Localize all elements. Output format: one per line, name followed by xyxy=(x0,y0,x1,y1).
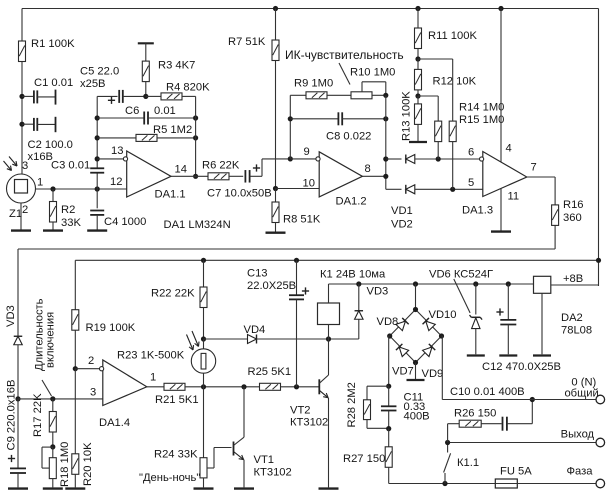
resistor R9 xyxy=(290,94,306,96)
wire DA2 ground xyxy=(541,293,543,354)
node C2 tap xyxy=(19,122,24,127)
svg-text:К1.1: К1.1 xyxy=(457,457,479,469)
svg-text:R4 820K: R4 820K xyxy=(166,82,210,94)
node K1 VT2 collector xyxy=(326,336,331,341)
svg-text:C7 10.0x50В: C7 10.0x50В xyxy=(207,188,272,200)
svg-text:VD2: VD2 xyxy=(391,219,413,231)
node rail VD6 xyxy=(473,281,478,286)
diode VD4 line xyxy=(204,338,248,340)
wire Z1 pin1 to DA1.1 pin12 xyxy=(36,188,127,190)
svg-text:360: 360 xyxy=(563,212,582,224)
node VD3 relay top xyxy=(356,281,361,286)
wire bridge right to neutral xyxy=(441,335,444,337)
svg-text:R19 100K: R19 100K xyxy=(86,322,136,334)
diode VD2 xyxy=(386,188,402,190)
svg-text:КТ3102: КТ3102 xyxy=(254,467,292,479)
wire pin10 input xyxy=(276,188,320,190)
resistor R25 xyxy=(260,383,281,390)
wire right edge +8V feed xyxy=(598,9,600,287)
pointer to R17 xyxy=(42,380,52,396)
svg-text:R8 51K: R8 51K xyxy=(283,214,321,226)
svg-text:DA2: DA2 xyxy=(561,312,583,324)
ground R20 xyxy=(65,487,85,489)
svg-text:C9 220.0x16В: C9 220.0x16В xyxy=(6,380,18,451)
node C3 C4 junction xyxy=(95,186,100,191)
resistor R12 xyxy=(417,59,419,69)
node top rail DA1.3 pin4 xyxy=(498,6,503,11)
node VT1 collector xyxy=(241,384,246,389)
svg-text:2: 2 xyxy=(22,204,28,216)
svg-text:R11 100K: R11 100K xyxy=(428,30,477,42)
node C13 bottom xyxy=(294,384,299,389)
resistor R28 xyxy=(367,385,389,387)
svg-text:R2: R2 xyxy=(61,204,75,216)
ground C9 xyxy=(8,487,28,489)
svg-text:7: 7 xyxy=(531,162,537,174)
svg-text:C13: C13 xyxy=(247,268,268,280)
svg-text:4: 4 xyxy=(506,143,512,155)
wire DA1.2 right rail xyxy=(385,95,387,189)
node snubber bottom xyxy=(445,440,450,445)
wire pin3 line xyxy=(18,398,103,400)
potentiometer R24 xyxy=(203,387,205,458)
resistor R19 xyxy=(72,310,79,331)
node R23 R24 output xyxy=(201,384,206,389)
resistor R4 xyxy=(146,95,161,97)
svg-text:C2 100.0: C2 100.0 xyxy=(28,139,73,151)
wire DA1.1 output xyxy=(171,175,208,177)
capacitor C13 xyxy=(296,260,298,295)
resistor R8 xyxy=(275,189,277,203)
wire left rail from top to Z1 xyxy=(21,9,23,42)
svg-text:R14 1M0: R14 1M0 xyxy=(459,102,504,114)
svg-text:VD9: VD9 xyxy=(422,368,444,380)
svg-text:C8 0.022: C8 0.022 xyxy=(326,131,371,143)
svg-text:VD6 КС524Г: VD6 КС524Г xyxy=(429,269,493,281)
svg-text:R26 150: R26 150 xyxy=(454,408,496,420)
regulator DA2 xyxy=(534,276,551,293)
resistor R27 xyxy=(388,429,390,447)
wire Z1 pin2 to ground xyxy=(20,203,22,230)
node R28 C11 top xyxy=(386,384,391,389)
op-amp DA1.1 xyxy=(127,151,171,197)
node rail C13 xyxy=(294,258,299,263)
ground R24 xyxy=(194,487,214,489)
svg-text:R5 1M2: R5 1M2 xyxy=(153,124,192,136)
bridge diamond xyxy=(390,310,416,337)
node R17 top xyxy=(50,396,55,401)
ground DA1.3 xyxy=(491,230,511,232)
resistor R6 xyxy=(208,173,229,180)
node R15 bottom xyxy=(450,187,455,192)
svg-text:x16B: x16B xyxy=(28,151,54,163)
svg-text:VD7: VD7 xyxy=(392,366,414,378)
svg-text:VD3: VD3 xyxy=(5,305,17,327)
node R11 R12 R15 xyxy=(415,56,420,61)
node rail right xyxy=(596,258,601,263)
svg-text:DA1.3: DA1.3 xyxy=(462,205,493,217)
wire R19 R20 divider rail xyxy=(74,260,76,309)
node left rail C8 xyxy=(288,116,293,121)
capacitor C3 xyxy=(90,167,104,169)
node R22 VD4 xyxy=(201,336,206,341)
svg-text:общий: общий xyxy=(564,387,598,399)
arrows into Z1 xyxy=(4,161,12,171)
capacitor C6 xyxy=(97,117,144,119)
resistor R7 xyxy=(275,9,277,41)
wire output rail y249 xyxy=(18,248,555,250)
svg-text:включения: включения xyxy=(45,312,57,368)
svg-text:R1 100K: R1 100K xyxy=(31,38,75,50)
svg-text:R27 150: R27 150 xyxy=(343,453,385,465)
potentiometer R18 xyxy=(52,447,54,458)
svg-text:R9 1M0: R9 1M0 xyxy=(294,78,333,90)
resistor R22 xyxy=(203,260,205,287)
wire bridge bottom ground xyxy=(415,363,417,380)
terminal phase xyxy=(596,479,605,488)
node R3 C5 R4 xyxy=(143,94,148,99)
diode VD1 xyxy=(386,158,402,160)
svg-text:3: 3 xyxy=(90,387,96,399)
svg-text:C5 22.0: C5 22.0 xyxy=(80,66,119,78)
svg-text:R18 1M0: R18 1M0 xyxy=(59,442,71,487)
node rail VD1 line xyxy=(383,156,388,161)
svg-text:33K: 33K xyxy=(61,217,81,229)
diode VD3 left xyxy=(14,336,23,345)
terminal neutral xyxy=(596,395,605,404)
svg-text:C4 1000: C4 1000 xyxy=(104,216,146,228)
svg-text:R7 51K: R7 51K xyxy=(228,36,266,48)
node R10 right xyxy=(383,93,388,98)
node C6 right xyxy=(193,115,198,120)
ground R2 xyxy=(43,229,63,231)
op-amp DA1.4 xyxy=(103,360,147,406)
svg-text:0.01: 0.01 xyxy=(154,105,176,117)
ground VD6 xyxy=(467,354,485,356)
svg-text:ИК-чувствительность: ИК-чувствительность xyxy=(285,48,404,62)
svg-text:8: 8 xyxy=(365,163,371,175)
node rail C12 xyxy=(506,281,511,286)
svg-text:R10 1M0: R10 1M0 xyxy=(350,67,395,79)
wire DA1.4 output xyxy=(147,386,164,388)
svg-text:5: 5 xyxy=(468,177,474,189)
capacitor C8 xyxy=(290,118,338,120)
node R2 top xyxy=(50,186,55,191)
capacitor C12 xyxy=(507,284,509,320)
node pin9 C7 junction xyxy=(288,156,293,161)
wire left timing chain xyxy=(17,249,19,336)
resistor R21 xyxy=(164,383,185,390)
switch K1.1 xyxy=(444,473,446,484)
svg-text:VD3: VD3 xyxy=(367,286,389,298)
node R5 right xyxy=(193,135,198,140)
resistor R14 xyxy=(418,95,438,97)
svg-text:R13 100K: R13 100K xyxy=(401,91,413,141)
svg-text:VD1: VD1 xyxy=(391,205,413,217)
ground R18 xyxy=(43,487,63,489)
svg-text:11: 11 xyxy=(508,191,520,203)
ground C4 xyxy=(87,229,107,231)
node R12 R13 R14 xyxy=(415,93,420,98)
svg-text:6: 6 xyxy=(468,147,474,159)
node bridge top xyxy=(413,281,418,286)
resistor R3 xyxy=(138,42,154,44)
svg-text:VT2: VT2 xyxy=(290,405,311,417)
svg-text:C10 0.01 400В: C10 0.01 400В xyxy=(450,386,525,398)
wire phase line xyxy=(389,483,496,485)
svg-text:9: 9 xyxy=(304,146,310,158)
node switch bottom xyxy=(442,481,447,486)
wiper R18 xyxy=(42,446,53,448)
svg-text:1: 1 xyxy=(37,177,43,189)
svg-text:VT1: VT1 xyxy=(254,454,275,466)
node C11 R27 xyxy=(386,426,391,431)
svg-text:R17 22K: R17 22K xyxy=(32,393,44,437)
op-amp DA1.3 xyxy=(483,152,527,197)
resistor R5 xyxy=(97,137,136,139)
wiper R24 xyxy=(207,467,214,469)
svg-text:Фаза: Фаза xyxy=(567,466,594,478)
svg-text:R3 4K7: R3 4K7 xyxy=(158,60,195,72)
node pin2 xyxy=(73,366,78,371)
photoresistor R23 xyxy=(203,339,205,349)
node top rail R7 xyxy=(273,6,278,11)
svg-text:C6: C6 xyxy=(125,105,139,117)
svg-text:R24 33K: R24 33K xyxy=(154,449,198,461)
node DA1.1 output feedback xyxy=(193,174,198,179)
svg-text:10: 10 xyxy=(303,178,315,190)
diode VD3 relay xyxy=(358,284,360,311)
diode bridge VD10 xyxy=(423,318,436,331)
op-amp DA1.2 xyxy=(319,152,362,197)
svg-text:FU 5A: FU 5A xyxy=(500,466,532,478)
resistor R11 xyxy=(417,9,419,29)
capacitor C1 xyxy=(22,95,34,97)
resistor R20 xyxy=(74,369,76,454)
svg-text:VD4: VD4 xyxy=(244,324,266,336)
wire pin9 input xyxy=(290,158,316,160)
capacitor C11 xyxy=(388,386,390,406)
capacitor C4 xyxy=(96,189,98,208)
wire output line xyxy=(448,442,596,444)
ground R8 xyxy=(266,231,286,233)
svg-text:C12 470.0X25В: C12 470.0X25В xyxy=(482,361,561,373)
resistor R2 xyxy=(52,189,54,202)
wire DA1.1 feedback left rail xyxy=(96,96,98,168)
svg-text:Z1: Z1 xyxy=(9,208,22,220)
svg-text:Выход: Выход xyxy=(561,429,595,441)
node rail R22 xyxy=(201,258,206,263)
diode bridge VD7 xyxy=(396,344,409,357)
svg-text:R23 1K-500K: R23 1K-500K xyxy=(117,350,185,362)
node R17 R18 xyxy=(50,444,55,449)
wire DA1.2 output xyxy=(362,175,385,177)
snubber R26 C10 xyxy=(447,424,449,443)
svg-text:3: 3 xyxy=(22,160,28,172)
svg-text:13: 13 xyxy=(111,145,123,157)
svg-text:R22 22K: R22 22K xyxy=(151,288,195,300)
wire DA1.3 pin11 ground xyxy=(500,188,502,230)
svg-text:R16: R16 xyxy=(563,199,584,211)
wire DA1.2 feedback left rail xyxy=(289,95,291,159)
pointer to R10 xyxy=(339,63,350,85)
node rail R5 xyxy=(95,135,100,140)
svg-text:R25 5K1: R25 5K1 xyxy=(248,366,292,378)
svg-text:К1 24В 10ма: К1 24В 10ма xyxy=(320,269,386,281)
wire neutral line xyxy=(442,399,596,401)
svg-text:R12 10K: R12 10K xyxy=(433,76,477,88)
capacitor C9 xyxy=(17,399,19,469)
svg-text:"День-ночь": "День-ночь" xyxy=(139,472,200,484)
wire pin2 input xyxy=(75,368,100,370)
sensor Z1 xyxy=(7,174,36,203)
ground C12 xyxy=(499,354,517,356)
wire bridge left to snubber node xyxy=(389,335,390,337)
svg-text:12: 12 xyxy=(110,176,122,188)
capacitor C5 xyxy=(97,95,117,97)
svg-text:R15 1M0: R15 1M0 xyxy=(459,114,504,126)
ground Z1 xyxy=(11,229,31,231)
wire top +8V rail xyxy=(22,8,599,10)
svg-text:R28 2M2: R28 2M2 xyxy=(346,382,358,427)
node R7 R8 pin10 xyxy=(273,186,278,191)
capacitor C7 xyxy=(244,170,246,183)
rail 24V unregulated y284 xyxy=(329,283,534,285)
zener VD6 xyxy=(475,284,477,315)
resistor R1 xyxy=(19,41,26,62)
node top rail R11 xyxy=(415,6,420,11)
wire DA1.3 pin4 supply xyxy=(500,9,502,163)
svg-text:C3 0.01: C3 0.01 xyxy=(51,160,90,172)
svg-text:14: 14 xyxy=(175,164,187,176)
ground DA2 xyxy=(533,354,551,356)
node rail pin13 xyxy=(95,156,100,161)
svg-text:R6 22K: R6 22K xyxy=(202,160,240,172)
transistor VT1 xyxy=(233,442,235,456)
pointer to VD6 xyxy=(454,279,470,313)
svg-text:R20 10K: R20 10K xyxy=(82,442,94,486)
svg-text:1: 1 xyxy=(150,372,156,384)
svg-text:DA1 LM324N: DA1 LM324N xyxy=(164,219,231,231)
arrows into R23 xyxy=(187,335,194,351)
ground VT2 xyxy=(319,487,339,489)
svg-text:VD8: VD8 xyxy=(377,316,399,328)
node rail C6 xyxy=(95,115,100,120)
wire DA1.3 output xyxy=(527,176,555,178)
resistor R13 xyxy=(417,96,419,104)
svg-text:+8В: +8В xyxy=(563,273,583,285)
trimmer R10 xyxy=(351,92,372,99)
ground R13 xyxy=(409,141,427,143)
svg-text:КТ3102: КТ3102 xyxy=(290,417,328,429)
svg-text:22.0X25B: 22.0X25B xyxy=(247,280,296,292)
wire DA1.1 feedback right rail xyxy=(195,96,197,176)
capacitor C2 xyxy=(22,123,34,125)
svg-text:400В: 400В xyxy=(404,410,430,422)
svg-text:R21 5K1: R21 5K1 xyxy=(155,394,199,406)
svg-text:DA1.2: DA1.2 xyxy=(336,196,367,208)
relay K1 coil xyxy=(318,303,340,325)
wiper R10 xyxy=(361,82,363,92)
resistor R17 xyxy=(52,399,54,412)
node neutral snubber xyxy=(530,397,535,402)
rail +8V bottom y260 xyxy=(75,259,598,261)
transistor VT2 xyxy=(318,379,320,394)
node R14 bottom xyxy=(436,156,441,161)
resistor R15 xyxy=(418,58,453,60)
ground VT1 xyxy=(234,487,254,489)
diode bridge VD9 xyxy=(423,344,436,357)
svg-text:DA1.4: DA1.4 xyxy=(99,417,130,429)
node C8 right xyxy=(383,116,388,121)
svg-text:VD10: VD10 xyxy=(429,309,457,321)
terminal output xyxy=(596,438,605,447)
diode bridge VD8 xyxy=(415,284,417,310)
wire DA2 output +8V xyxy=(551,284,599,286)
node rail output xyxy=(383,174,388,179)
fuse FU xyxy=(495,479,517,488)
wire pin13 input xyxy=(97,158,124,160)
resistor R16 xyxy=(554,177,556,205)
node R1-C1 xyxy=(19,94,24,99)
svg-text:C1 0.01: C1 0.01 xyxy=(34,77,73,89)
svg-text:x25B: x25B xyxy=(80,78,106,90)
svg-text:78L08: 78L08 xyxy=(561,325,592,337)
svg-text:2: 2 xyxy=(88,355,94,367)
svg-text:DA1.1: DA1.1 xyxy=(155,189,186,201)
node pin3 left xyxy=(15,396,20,401)
